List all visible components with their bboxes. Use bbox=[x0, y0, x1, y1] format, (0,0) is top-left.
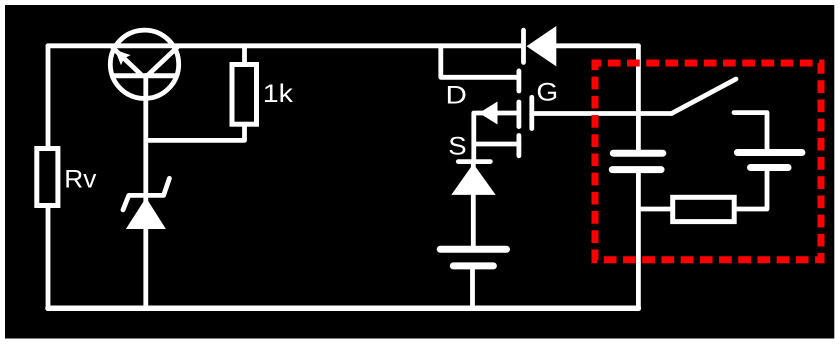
MOSFET M1 gate bar bbox=[529, 97, 534, 128]
wire: source vertical bbox=[471, 113, 476, 162]
battery BT2 bbox=[737, 153, 802, 168]
diode D3 (below S, pointing up) bbox=[451, 162, 495, 195]
resistor Rv bbox=[37, 149, 58, 206]
transistor Q1 emitter diagonal bbox=[113, 48, 141, 75]
resistor 1k bbox=[232, 65, 257, 125]
wire: diode D3 to battery BT1 bbox=[471, 164, 476, 246]
red dashed enclosure box bbox=[595, 63, 821, 260]
diode D2 cathode bar bbox=[521, 30, 526, 62]
wire: top rail left segment bbox=[48, 43, 522, 48]
wire: 1k resistor leads and base connector bbox=[146, 46, 245, 141]
switch SW1 blade bbox=[672, 79, 737, 114]
MOSFET M1 channel middle segment bbox=[517, 102, 522, 127]
wire: right vertical above capacitor C1 bbox=[636, 46, 641, 150]
battery BT2 short plate bbox=[751, 164, 789, 171]
diode D2 (top, pointing left) bbox=[524, 26, 557, 66]
diode D3 triangle bbox=[451, 164, 495, 195]
capacitor C1 top plate bbox=[613, 150, 663, 157]
transistor Q1 emitter arrow bbox=[115, 50, 131, 66]
MOSFET M1 channel bottom segment bbox=[517, 136, 522, 156]
wire: top rail right segment bbox=[557, 43, 638, 48]
zener DZ cathode bar with bent ends bbox=[123, 178, 169, 210]
wire: source to channel connector bbox=[474, 142, 519, 147]
transistor Q1 circle bbox=[110, 30, 178, 98]
MOSFET M1 bbox=[519, 71, 532, 156]
diode D2 triangle bbox=[527, 26, 557, 66]
svg-text:S: S bbox=[448, 133, 466, 161]
svg-text:1k: 1k bbox=[263, 80, 293, 108]
wire: gate lead to switch pivot bbox=[532, 111, 672, 116]
transistor Q1 base bar bbox=[113, 73, 177, 78]
wire: left vertical rail bbox=[46, 46, 51, 309]
diode D3 cathode bar bbox=[458, 159, 490, 164]
wire: transistor base lead down through zener bbox=[143, 76, 148, 309]
resistor R2 bbox=[673, 197, 735, 221]
wire: battery BT2 to resistor R2 bbox=[737, 171, 767, 209]
wire: drain tap from top rail bbox=[441, 46, 517, 78]
wire: right vertical below capacitor C1 bbox=[636, 173, 641, 308]
transistor Q1 bbox=[110, 30, 178, 98]
battery BT1 bbox=[440, 249, 506, 266]
zener diode DZ bbox=[123, 178, 169, 229]
wire: switch right contact to battery BT2 bbox=[734, 113, 767, 150]
svg-text:Rv: Rv bbox=[64, 166, 96, 194]
zener DZ triangle bbox=[126, 198, 166, 229]
wire: bottom rail bbox=[48, 306, 638, 312]
battery BT1 long plate bbox=[440, 246, 506, 253]
MOSFET M1 channel top segment bbox=[517, 71, 522, 91]
wire: resistor R2 to left vertical bbox=[638, 207, 670, 212]
transistor Q1 collector diagonal bbox=[148, 47, 177, 75]
battery BT2 long plate bbox=[737, 149, 802, 156]
svg-text:D: D bbox=[446, 81, 467, 109]
MOSFET M1 body arrow bbox=[479, 102, 498, 125]
wire: body-diode arrow line bbox=[476, 111, 517, 116]
svg-text:G: G bbox=[536, 78, 558, 106]
battery BT1 short plate bbox=[453, 262, 493, 269]
wire: battery BT1 to bottom rail bbox=[470, 269, 475, 308]
capacitor C1 bbox=[612, 153, 663, 169]
capacitor C1 bottom plate bbox=[612, 166, 661, 173]
